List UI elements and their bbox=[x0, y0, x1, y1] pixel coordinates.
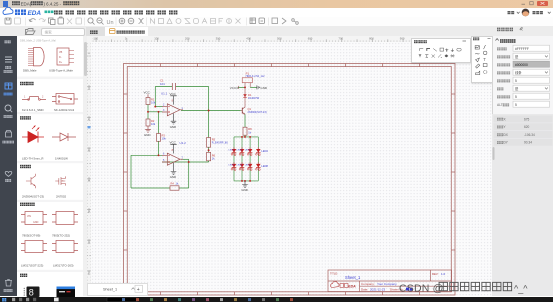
ground under U1.2 bbox=[170, 163, 177, 179]
svg-text:675: 675 bbox=[524, 117, 530, 121]
wire: top feedback rail through C1 bbox=[155, 86, 208, 88]
LEDs row2: LED5 LED6 LED7 LED8 bbox=[229, 162, 269, 170]
ground under R2 bbox=[144, 126, 151, 137]
VCC above U1.2 bbox=[170, 141, 177, 154]
DB9_Male symbol bbox=[28, 48, 44, 66]
K2 button symbol bbox=[22, 96, 46, 101]
wire: vertical from rail to U1.1 inverting input bbox=[154, 87, 156, 107]
wire: -in2 horizontal to left loop bbox=[131, 154, 163, 156]
wire R6 bottom corner to node line bbox=[208, 161, 210, 162]
right panel tab 层和属性 bbox=[497, 27, 523, 31]
svg-text:400: 400 bbox=[87, 177, 91, 182]
svg-text:ALT: ALT bbox=[497, 103, 503, 107]
svg-text:200: 200 bbox=[185, 36, 190, 40]
svg-text:500: 500 bbox=[277, 36, 282, 40]
svg-text:300: 300 bbox=[87, 147, 91, 152]
wire: U1.1 -in horizontal bbox=[155, 106, 162, 108]
svg-text:EDA: EDA bbox=[28, 10, 42, 17]
title block bbox=[328, 270, 452, 292]
wire: U1.2 output stub bbox=[181, 158, 189, 160]
wire: feedback vertical x208.5 rail-output-R5 bbox=[208, 87, 210, 138]
VCC above U1.1 bbox=[170, 92, 177, 105]
svg-text:D-: D- bbox=[59, 56, 62, 59]
wire R3 to -in2 line bbox=[158, 141, 160, 155]
ground under U1.1 bbox=[170, 113, 177, 128]
svg-text:620: 620 bbox=[524, 125, 530, 129]
wire P1 pin2 to GND flag bbox=[250, 86, 257, 88]
svg-text:400: 400 bbox=[246, 36, 251, 40]
LEDs row1: LED1 LED2 LED3 LED4 bbox=[229, 147, 269, 155]
svg-text:+: + bbox=[137, 287, 140, 293]
vertical ruler ticks + numbers bbox=[87, 42, 91, 283]
svg-text:1N4001W: 1N4001W bbox=[55, 156, 68, 160]
resistor R2 bbox=[146, 119, 156, 126]
wire: left loop vertical bbox=[130, 155, 132, 188]
svg-text:DB9_Male: DB9_Male bbox=[23, 69, 37, 73]
USB-Type-A_Male symbol bbox=[57, 48, 74, 65]
resistor R5 bbox=[207, 138, 229, 148]
svg-text:100: 100 bbox=[87, 85, 91, 90]
wire bottom rail bbox=[234, 180, 258, 182]
LED matrix rails bbox=[234, 137, 258, 181]
wire R8 to LED matrix top rail bbox=[244, 135, 246, 137]
LED-TH-3mm_R symbol bbox=[22, 126, 44, 143]
diode D1 with vertical link bbox=[243, 87, 260, 107]
op-amp U1.2 bbox=[162, 141, 186, 165]
svg-text:#FFFFFF: #FFFFFF bbox=[515, 47, 529, 51]
svg-text:K2-3.6-6.1_SMD: K2-3.6-6.1_SMD bbox=[22, 108, 44, 112]
net flag VCC3 bbox=[230, 86, 239, 90]
7-segment display images bbox=[24, 288, 25, 296]
resistor R4 bbox=[170, 182, 179, 191]
svg-text:VIN: VIN bbox=[27, 215, 31, 218]
junction dots (upper section) bbox=[147, 106, 210, 113]
junction dot at P1 pin1 node bbox=[244, 86, 246, 88]
wire: +in rail from R1R2 divider bbox=[148, 111, 163, 113]
svg-text:-100: -100 bbox=[93, 36, 99, 40]
svg-text:D+: D+ bbox=[59, 61, 63, 64]
mosfet 2N7002 symbol bbox=[55, 176, 65, 185]
wire R5-R6 bbox=[208, 147, 210, 152]
wire: U1.1 output long rail to Q1 base bbox=[181, 110, 241, 112]
CSDN watermark bbox=[399, 282, 528, 294]
svg-text:300: 300 bbox=[216, 36, 221, 40]
window buttons min/max bbox=[522, 3, 526, 5]
frame zone ticks bbox=[124, 64, 456, 296]
regulator LM317 sot-223 symbol bbox=[21, 241, 47, 253]
SK slide switch symbol bbox=[52, 94, 78, 105]
svg-text:DB9_Male_2 USB-Type-A_Mal: DB9_Male_2 USB-Type-A_Mal bbox=[20, 39, 56, 43]
wire: vertical +in node down to R3 bbox=[158, 112, 160, 134]
wire top rail bbox=[234, 136, 258, 138]
matrix junction dots bbox=[241, 136, 251, 182]
svg-text:2N3904(SOT-23): 2N3904(SOT-23) bbox=[22, 195, 44, 199]
wire: bottom loop horizontals around R4 bbox=[131, 187, 189, 189]
svg-text:LM317(SOT-223): LM317(SOT-223) bbox=[21, 264, 43, 268]
info rows bbox=[494, 116, 553, 146]
svg-text:#000000: #000000 bbox=[515, 63, 528, 67]
connector P1 bbox=[242, 71, 265, 87]
svg-text:5: 5 bbox=[515, 79, 517, 83]
taskbar icons bbox=[2, 297, 293, 301]
title bar text bbox=[12, 1, 16, 5]
svg-text:VB: VB bbox=[59, 51, 63, 54]
regulator LM317 to-263 symbol bbox=[52, 241, 78, 253]
title block easyeda logo bbox=[331, 281, 357, 288]
section 显示 bbox=[17, 270, 83, 272]
svg-text:Sheet_1: Sheet_1 bbox=[103, 288, 117, 292]
toolbar right cluster of placement icons bbox=[151, 18, 247, 26]
svg-text:600: 600 bbox=[308, 36, 313, 40]
svg-text:LM317(TO-263): LM317(TO-263) bbox=[53, 264, 74, 268]
svg-text:600: 600 bbox=[87, 239, 91, 244]
svg-text:GND: GND bbox=[33, 221, 39, 224]
active tab icon + label bbox=[110, 29, 116, 34]
VCC flag left divider bbox=[144, 91, 151, 98]
svg-text:7805(SOT-89): 7805(SOT-89) bbox=[22, 234, 40, 238]
svg-text:2N7002: 2N7002 bbox=[56, 195, 67, 199]
menubar logo cloud bbox=[3, 7, 13, 14]
svg-text:CSDN @: CSDN @ bbox=[399, 282, 444, 294]
svg-text:) 6.4.25 -: ) 6.4.25 - bbox=[44, 1, 62, 6]
svg-text:Un: Un bbox=[107, 20, 114, 26]
svg-text:5: 5 bbox=[515, 95, 517, 99]
capacitor C1 bbox=[160, 79, 176, 91]
wire emitter down to R8 bbox=[244, 114, 246, 127]
svg-text:-106.34: -106.34 bbox=[524, 133, 535, 137]
svg-text:700: 700 bbox=[87, 270, 91, 275]
svg-text:搜索: 搜索 bbox=[45, 29, 53, 34]
wire: right loop vertical up to +in2/out node bbox=[188, 159, 190, 188]
svg-text:100: 100 bbox=[154, 36, 159, 40]
svg-text:LED-TH-3mm_R: LED-TH-3mm_R bbox=[22, 156, 44, 160]
svg-text:900: 900 bbox=[400, 36, 405, 40]
svg-text:2: 2 bbox=[42, 96, 44, 99]
resistor R6 bbox=[207, 152, 216, 161]
svg-text:EDA(: EDA( bbox=[21, 1, 32, 6]
svg-text:800: 800 bbox=[369, 36, 374, 40]
section 二极管 bbox=[17, 112, 83, 114]
transistor 2N3904 symbol bbox=[26, 174, 35, 188]
wire: +in2 horizontal node line to R6 bbox=[162, 161, 209, 163]
svg-text:90.34: 90.34 bbox=[524, 141, 532, 145]
toolbar icons bbox=[5, 17, 104, 26]
svg-text:SK-12D02-VG3: SK-12D02-VG3 bbox=[54, 108, 74, 112]
section 稳压器件 bbox=[17, 200, 83, 202]
svg-text:7805(TO-252): 7805(TO-252) bbox=[52, 234, 70, 238]
sheet frame outer border bbox=[124, 64, 456, 296]
svg-text:500: 500 bbox=[87, 208, 91, 213]
diode 1N4001W symbol bbox=[52, 133, 76, 141]
junction dots (lower section) bbox=[158, 149, 210, 163]
resistor R1 bbox=[146, 97, 156, 104]
menu items bbox=[54, 10, 177, 14]
section 开关/按键 bbox=[17, 77, 83, 80]
resistor R8 bbox=[243, 127, 252, 135]
wire VCC3 to P1 pin1 bbox=[238, 86, 245, 88]
transistor Q1 bbox=[241, 107, 267, 114]
svg-text:700: 700 bbox=[338, 36, 343, 40]
ground under LED matrix bbox=[241, 181, 247, 192]
svg-text:200: 200 bbox=[87, 116, 91, 121]
op-amp U1.1 bbox=[161, 92, 184, 116]
svg-text:USB-Type-A_Male: USB-Type-A_Male bbox=[49, 69, 73, 73]
svg-text:8: 8 bbox=[29, 288, 34, 298]
wire matrix columns bbox=[234, 137, 258, 181]
power flag GND right bbox=[257, 85, 268, 90]
resistor R3 bbox=[157, 134, 167, 142]
tab row: folder open icon bbox=[26, 29, 36, 35]
menubar right: user area bbox=[508, 11, 511, 14]
regulator 7805 symbol bbox=[21, 212, 47, 225]
svg-text:^_^: ^_^ bbox=[514, 283, 528, 293]
svg-text:1: 1 bbox=[24, 96, 26, 99]
svg-text:5: 5 bbox=[515, 103, 517, 107]
tab 开始 bbox=[90, 30, 94, 34]
section 晶体管 bbox=[17, 161, 83, 163]
svg-text:T: T bbox=[483, 57, 486, 62]
regulator 78M05 symbol bbox=[52, 212, 78, 225]
wire R1-R2 bbox=[147, 105, 149, 120]
svg-text:线条: 线条 bbox=[515, 70, 522, 75]
horizontal ruler ticks + numbers bbox=[91, 36, 411, 42]
